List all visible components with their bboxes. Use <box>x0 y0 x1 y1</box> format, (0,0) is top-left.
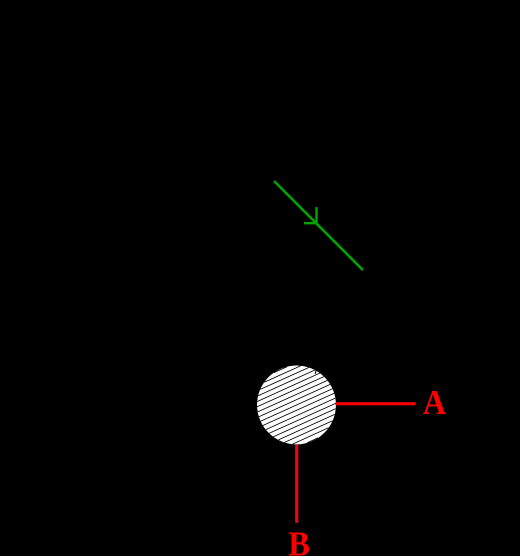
ball (hatched circle) <box>257 365 336 444</box>
red line to B <box>295 445 298 523</box>
string tip over ball <box>314 370 317 374</box>
svg-text:A: A <box>423 384 447 422</box>
red line to A <box>335 402 415 405</box>
ball hatch lines <box>257 366 336 444</box>
string segment entering ball <box>315 270 363 374</box>
green ray arrow <box>274 181 363 270</box>
svg-text:B: B <box>288 526 310 556</box>
